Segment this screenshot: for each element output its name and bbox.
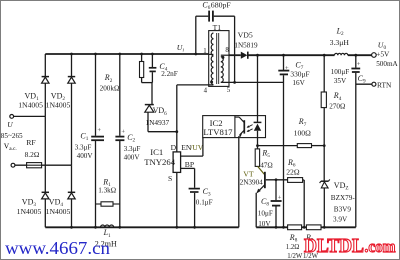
svg-text:RF: RF xyxy=(26,138,36,147)
diode VD1 1N4005 xyxy=(42,54,49,116)
svg-text:1N4005: 1N4005 xyxy=(18,100,43,109)
wire primary return rail xyxy=(45,226,239,229)
capacitor C4 2.2nF xyxy=(149,53,157,83)
svg-text:1N5819: 1N5819 xyxy=(234,41,258,49)
inductor L1 2.2mH xyxy=(101,225,114,227)
label C1 xyxy=(75,132,94,161)
svg-text:100μF: 100μF xyxy=(331,68,350,76)
svg-text:5: 5 xyxy=(227,87,231,94)
svg-text:D: D xyxy=(171,143,177,152)
svg-text:270Ω: 270Ω xyxy=(329,103,345,111)
terminal AC input top xyxy=(10,115,46,119)
svg-text:85~265: 85~265 xyxy=(1,132,23,140)
label C6 680pF xyxy=(202,1,231,12)
label L1 xyxy=(95,228,117,248)
watermark blue www.4667.cn xyxy=(5,238,110,258)
terminal +5V output xyxy=(372,53,377,58)
svg-text:1.3kΩ: 1.3kΩ xyxy=(98,186,116,194)
svg-text:S: S xyxy=(168,174,172,183)
resistor R4 270 xyxy=(321,54,326,181)
diode VD6 1N4937 xyxy=(145,83,154,132)
label VD3 xyxy=(17,198,42,216)
label R4 xyxy=(329,91,345,110)
svg-text:100Ω: 100Ω xyxy=(294,128,312,137)
label RF 8.2 ohm xyxy=(25,138,40,159)
diode VD3 1N4005 xyxy=(42,116,49,227)
label L2 xyxy=(330,26,350,47)
label IC1 xyxy=(144,147,176,167)
capacitor C7 330uF 16V xyxy=(278,54,289,228)
transformer T1 core box xyxy=(209,31,229,87)
svg-text:+: + xyxy=(278,195,282,202)
resistor R5 47 xyxy=(255,146,259,167)
diode VD2 1N4005 xyxy=(68,53,75,166)
svg-text:1N4005: 1N4005 xyxy=(46,100,71,109)
wire pin4 to drain xyxy=(177,84,214,86)
label C8 xyxy=(258,197,273,228)
svg-text:+: + xyxy=(357,61,361,68)
transformer T1 core lines xyxy=(217,33,219,84)
wire RTN xyxy=(356,83,372,85)
svg-text:10μF: 10μF xyxy=(258,209,273,217)
label C4 xyxy=(159,62,177,78)
label VD2 xyxy=(46,92,71,110)
label RTN xyxy=(377,80,392,89)
svg-text:RTN: RTN xyxy=(377,80,392,89)
diode VD5 1N5819 xyxy=(229,52,335,59)
opto phototransistor xyxy=(235,117,244,137)
svg-text:VT: VT xyxy=(243,169,254,178)
label EN/UV pin xyxy=(181,143,204,152)
resistor R6 22 xyxy=(288,178,305,228)
wire pin8 xyxy=(221,54,229,56)
fusible resistor RF xyxy=(27,163,42,168)
IC1 TNY264 body xyxy=(173,85,181,229)
svg-text:TNY264: TNY264 xyxy=(144,157,176,167)
capacitor C9 100uF 35V xyxy=(351,55,360,227)
svg-text:3.3μF: 3.3μF xyxy=(75,143,92,151)
wire VT emitter to rail xyxy=(255,193,257,228)
label R2 xyxy=(100,73,120,92)
svg-text:1N4005: 1N4005 xyxy=(46,207,71,216)
label R8 xyxy=(286,233,303,260)
transformer T1 primary winding xyxy=(211,33,213,85)
opto LED xyxy=(254,54,262,146)
label U0 +5V 500mA xyxy=(376,41,398,68)
svg-text:2N3904: 2N3904 xyxy=(240,178,264,186)
label pin 5 xyxy=(227,87,231,94)
label VD4 xyxy=(46,198,71,216)
label D pin xyxy=(171,143,177,152)
svg-text:35V: 35V xyxy=(334,77,347,85)
opto light arrows xyxy=(247,125,253,132)
svg-text:330μF: 330μF xyxy=(290,70,309,79)
wire clamp to drain xyxy=(148,130,178,133)
svg-text:3.9V: 3.9V xyxy=(333,215,348,223)
svg-text:3.3μF: 3.3μF xyxy=(124,145,141,153)
label Ui bus xyxy=(177,43,185,54)
svg-text:+: + xyxy=(285,65,289,72)
inductor L2 3.3uH xyxy=(335,53,372,56)
svg-text:2.2nF: 2.2nF xyxy=(161,70,178,78)
resistor R2 200k xyxy=(140,53,144,83)
svg-text:B3V9: B3V9 xyxy=(334,206,352,214)
wire opto emitter to rail xyxy=(238,136,240,227)
svg-text:4: 4 xyxy=(204,88,208,95)
wire DC+ bus xyxy=(45,53,208,55)
svg-text:8: 8 xyxy=(225,47,229,54)
wire secondary return rail xyxy=(256,226,287,229)
svg-text:22Ω: 22Ω xyxy=(286,168,300,177)
node LED cathode xyxy=(256,144,259,147)
capacitor C3 0.1uF xyxy=(189,189,200,229)
transistor VT 2N3904 xyxy=(256,166,265,193)
capacitor C1 3.3uF 400V xyxy=(91,53,104,228)
svg-text:.com: .com xyxy=(365,237,396,256)
label VD5 xyxy=(234,30,258,49)
wire VT base line xyxy=(266,179,288,181)
svg-text:0.1μF: 0.1μF xyxy=(196,199,213,207)
resistor R1 1.3k xyxy=(96,202,120,206)
label C3 xyxy=(196,187,213,207)
svg-text:www.4667.cn: www.4667.cn xyxy=(5,238,110,258)
opto divider line xyxy=(234,116,236,138)
wire node to R7 xyxy=(258,145,298,147)
svg-text:400V: 400V xyxy=(124,153,141,161)
label C2 xyxy=(124,133,141,162)
label R5 xyxy=(260,149,273,170)
svg-text:VD5: VD5 xyxy=(238,30,253,39)
wire BP pin xyxy=(181,168,195,187)
capacitor C8 10uF xyxy=(271,178,282,227)
polarity dot primary xyxy=(210,81,213,84)
svg-text:+: + xyxy=(121,129,125,136)
diode VD4 1N4005 xyxy=(68,165,75,227)
label BP pin xyxy=(185,160,194,169)
svg-text:+: + xyxy=(97,127,101,134)
IC2 LTV817 box xyxy=(203,116,266,138)
svg-text:1N4937: 1N4937 xyxy=(145,118,169,127)
svg-text:1: 1 xyxy=(203,48,206,55)
zener VDZ BZX79-B3V9 xyxy=(320,179,330,228)
svg-text:500mA: 500mA xyxy=(376,60,398,68)
svg-text:U: U xyxy=(7,120,13,129)
label R7 xyxy=(294,117,312,137)
capacitor C2 3.3uF 400V xyxy=(115,53,125,228)
svg-text:1N4005: 1N4005 xyxy=(17,207,42,216)
label C9 xyxy=(331,68,366,85)
label C7 xyxy=(290,60,309,87)
svg-text:400V: 400V xyxy=(77,152,94,160)
polarity dot secondary xyxy=(221,56,224,59)
label R1 xyxy=(98,177,116,194)
label VD6 xyxy=(145,106,169,127)
label VD1 xyxy=(18,92,43,110)
svg-text:3.3μH: 3.3μH xyxy=(330,38,350,47)
svg-text:BP: BP xyxy=(185,160,194,169)
label IC2 xyxy=(203,118,233,137)
svg-text:8.2Ω: 8.2Ω xyxy=(25,150,40,159)
svg-text:680pF: 680pF xyxy=(211,1,232,10)
label pin 8 xyxy=(225,47,229,54)
label U input voltage xyxy=(1,120,23,152)
wire pin5 secondary return xyxy=(221,81,284,84)
label pin 1 xyxy=(203,48,206,55)
label VDZ xyxy=(331,181,356,223)
wire snubber join xyxy=(142,82,153,84)
svg-text:16V: 16V xyxy=(292,79,305,87)
svg-text:/UV: /UV xyxy=(190,143,204,152)
label pin 4 xyxy=(204,88,208,95)
svg-text:+5V: +5V xyxy=(376,49,390,58)
svg-text:47Ω: 47Ω xyxy=(260,161,273,169)
wire pin1 xyxy=(209,53,214,55)
svg-text:LTV817: LTV817 xyxy=(203,127,233,137)
label R9 xyxy=(303,233,319,260)
label S pin xyxy=(168,174,172,183)
watermark red DLTDL.com xyxy=(304,235,396,257)
resistor R8 1.2 ohm xyxy=(288,225,307,230)
svg-text:1.2Ω: 1.2Ω xyxy=(286,244,300,251)
svg-text:1/2W: 1/2W xyxy=(287,253,303,260)
terminal RTN xyxy=(372,82,376,86)
svg-text:DLTDL: DLTDL xyxy=(304,235,364,257)
label VT xyxy=(240,169,264,186)
svg-text:IC1: IC1 xyxy=(150,147,163,157)
wire EN/UV to opto xyxy=(181,138,203,157)
label R6 xyxy=(286,158,300,177)
capacitor C6 680pF xyxy=(194,11,234,83)
resistor R7 100 xyxy=(297,144,325,148)
transformer T1 secondary winding xyxy=(221,57,223,83)
svg-text:200kΩ: 200kΩ xyxy=(100,85,120,93)
label T1 xyxy=(213,23,222,32)
svg-text:BZX79-: BZX79- xyxy=(331,194,356,202)
terminal AC input bottom xyxy=(11,163,71,167)
resistor R9 1.2 ohm xyxy=(306,225,355,230)
